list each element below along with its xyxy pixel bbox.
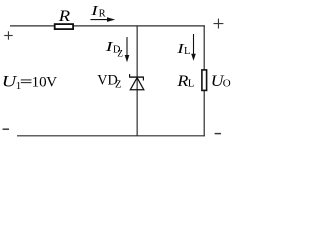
svg-text:1: 1 [16, 80, 21, 92]
svg-text:R: R [99, 9, 106, 20]
svg-text:V: V [46, 74, 57, 90]
svg-text:10: 10 [32, 74, 47, 90]
svg-text:Z: Z [117, 50, 123, 60]
svg-text:L: L [184, 46, 190, 57]
svg-text:O: O [223, 77, 231, 89]
svg-text:R: R [58, 8, 71, 25]
svg-text:Z: Z [115, 79, 121, 90]
svg-text:L: L [188, 77, 195, 89]
